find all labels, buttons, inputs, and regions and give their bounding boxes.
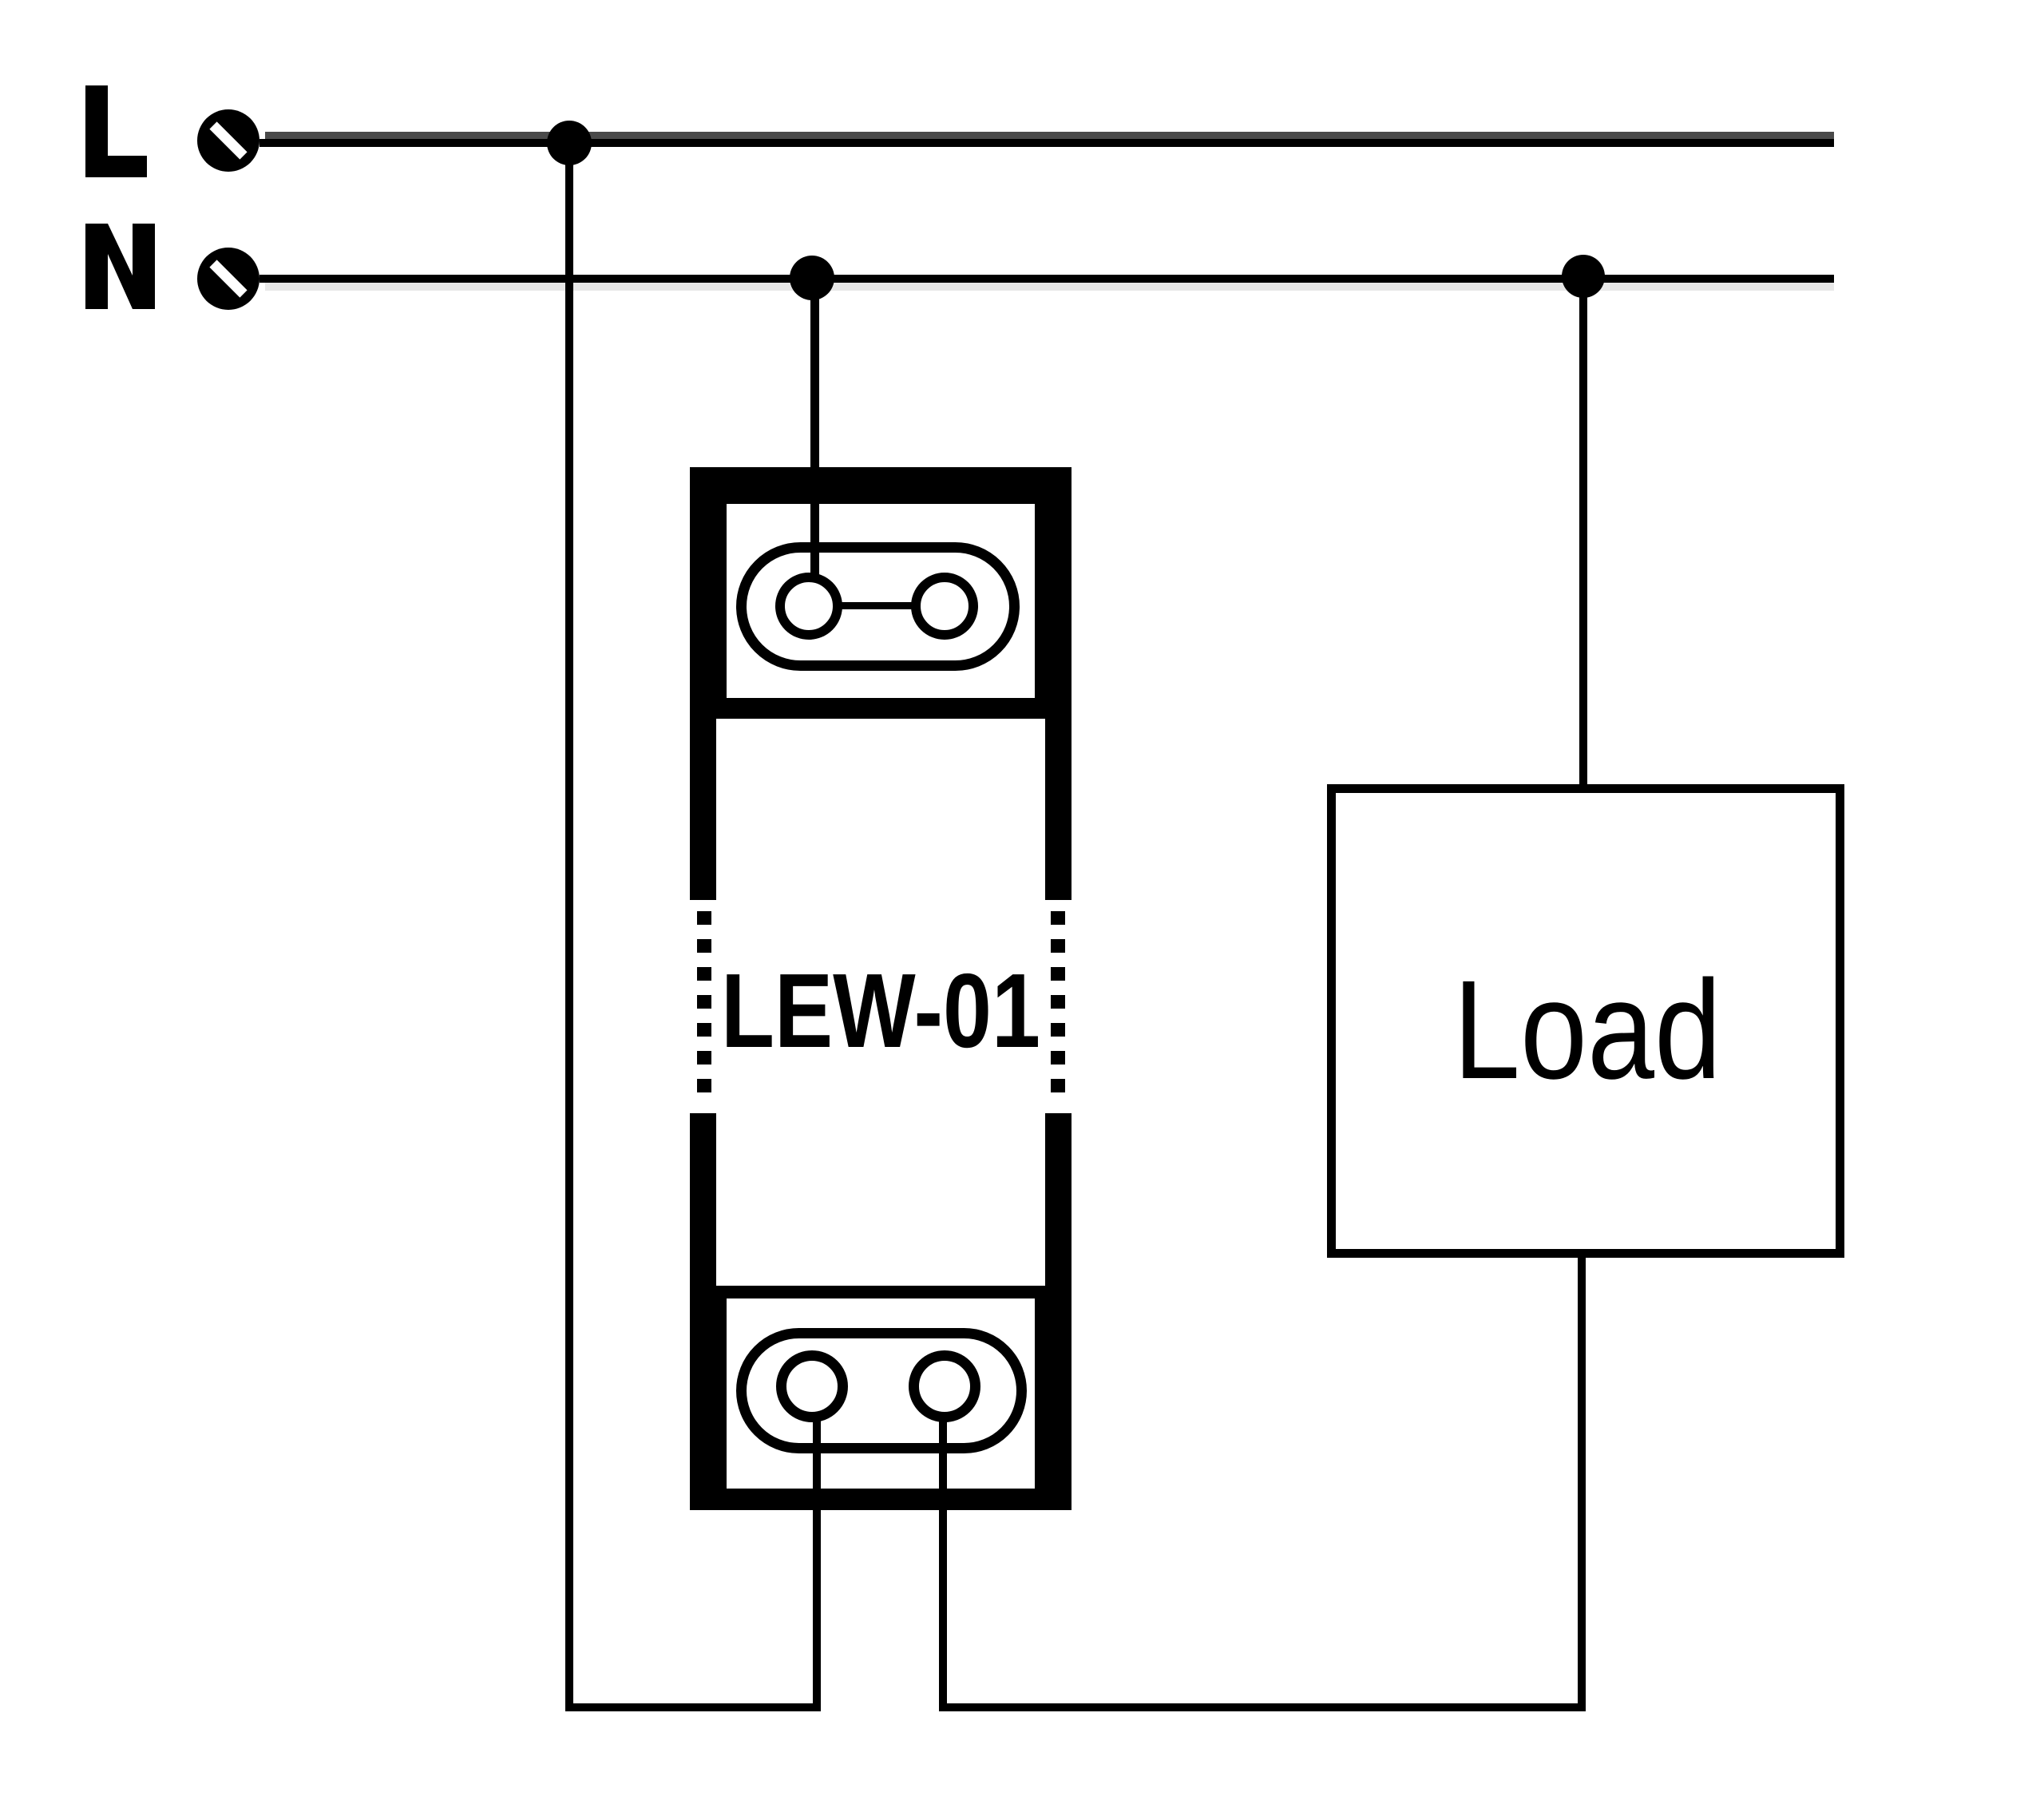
wire N bus shadow xyxy=(265,283,1834,291)
node L label xyxy=(85,85,147,177)
terminal link top xyxy=(838,602,915,609)
terminal bottom-left circle xyxy=(782,1356,843,1417)
wire bottom right horizontal xyxy=(939,1703,1586,1711)
terminal screw N xyxy=(197,248,259,310)
meter bottom terminal section xyxy=(690,1286,1072,1510)
terminal block top stadium xyxy=(742,548,1015,666)
meter upper right border xyxy=(1045,719,1072,900)
terminal bottom-right circle xyxy=(914,1356,976,1417)
meter dotted left border xyxy=(697,911,711,1102)
meter lower right border xyxy=(1045,1113,1072,1286)
node N label xyxy=(85,224,155,309)
wire into top terminal xyxy=(810,504,819,580)
wire L drop vertical xyxy=(565,143,573,1711)
junction L bus drop xyxy=(547,121,592,165)
meter upper left border xyxy=(690,719,716,900)
junction N bus load xyxy=(1562,255,1605,298)
meter U1 LEW-01 top terminal section xyxy=(690,467,1072,719)
wire N drop to meter xyxy=(810,278,819,577)
wire load to bottom xyxy=(1578,1254,1586,1711)
terminal block bottom stadium xyxy=(742,1334,1022,1449)
meter dotted right border xyxy=(1051,911,1065,1102)
terminal top-left circle xyxy=(780,577,838,635)
load box xyxy=(1332,789,1840,1254)
wire meter output L riser xyxy=(813,1405,821,1711)
junction N bus meter xyxy=(790,256,834,300)
svg-text:Load: Load xyxy=(1453,952,1721,1108)
wire L bus shadow xyxy=(265,132,1834,139)
meter lower left border xyxy=(690,1113,716,1286)
wire bottom left horizontal xyxy=(565,1703,820,1711)
wire N drop to load xyxy=(1579,276,1587,788)
wire meter output N riser xyxy=(939,1405,947,1711)
terminal top-right circle xyxy=(916,577,973,635)
terminal screw L xyxy=(197,109,259,172)
svg-text:LEW-01: LEW-01 xyxy=(721,952,1040,1069)
wire L bus xyxy=(259,139,1834,147)
wire N bus xyxy=(259,275,1834,283)
